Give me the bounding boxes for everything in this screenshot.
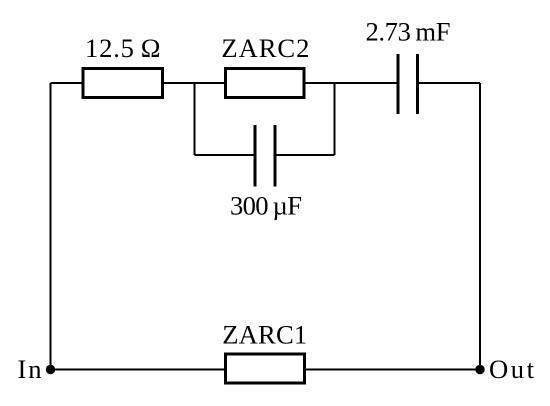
capacitor C2 2.73 mF right plate bbox=[416, 54, 419, 114]
wire bottom rail: In node to ZARC1 bbox=[51, 369, 226, 371]
capacitor C1 300 uF right plate bbox=[274, 125, 277, 187]
wire branch bottom left horizontal bbox=[195, 154, 256, 156]
wire bottom rail: ZARC1 to Out node bbox=[305, 369, 481, 371]
capacitor C1 300 uF left plate bbox=[254, 125, 257, 187]
svg-text:ZARC1: ZARC1 bbox=[222, 320, 307, 350]
svg-text:Out: Out bbox=[489, 354, 535, 384]
ZARC1 box bbox=[226, 354, 305, 383]
svg-text:2.73 mF: 2.73 mF bbox=[366, 17, 451, 47]
svg-text:ZARC2: ZARC2 bbox=[221, 33, 309, 63]
wire branch left vertical drop bbox=[194, 83, 196, 155]
resistor R 12.5 ohm body bbox=[83, 69, 163, 98]
wire top rail: ZARC2 to capacitor C2 bbox=[304, 82, 398, 84]
ZARC2 box bbox=[226, 69, 305, 98]
node Out terminal dot bbox=[475, 365, 484, 374]
wire branch right vertical rise bbox=[334, 83, 336, 155]
wire top rail: resistor to ZARC2 bbox=[163, 82, 226, 84]
node In terminal dot bbox=[46, 365, 55, 374]
wire left vertical (In to top rail) bbox=[50, 83, 52, 370]
svg-text:In: In bbox=[18, 354, 42, 384]
wire right vertical (top rail to Out) bbox=[479, 83, 481, 370]
wire top rail: capacitor C2 to right node bbox=[418, 82, 481, 84]
svg-text:300 µF: 300 µF bbox=[230, 191, 302, 221]
wire top rail: left node to resistor R bbox=[51, 82, 84, 84]
capacitor C2 2.73 mF left plate bbox=[397, 54, 400, 114]
svg-text:12.5 Ω: 12.5 Ω bbox=[85, 33, 161, 63]
wire branch bottom right horizontal bbox=[275, 154, 335, 156]
